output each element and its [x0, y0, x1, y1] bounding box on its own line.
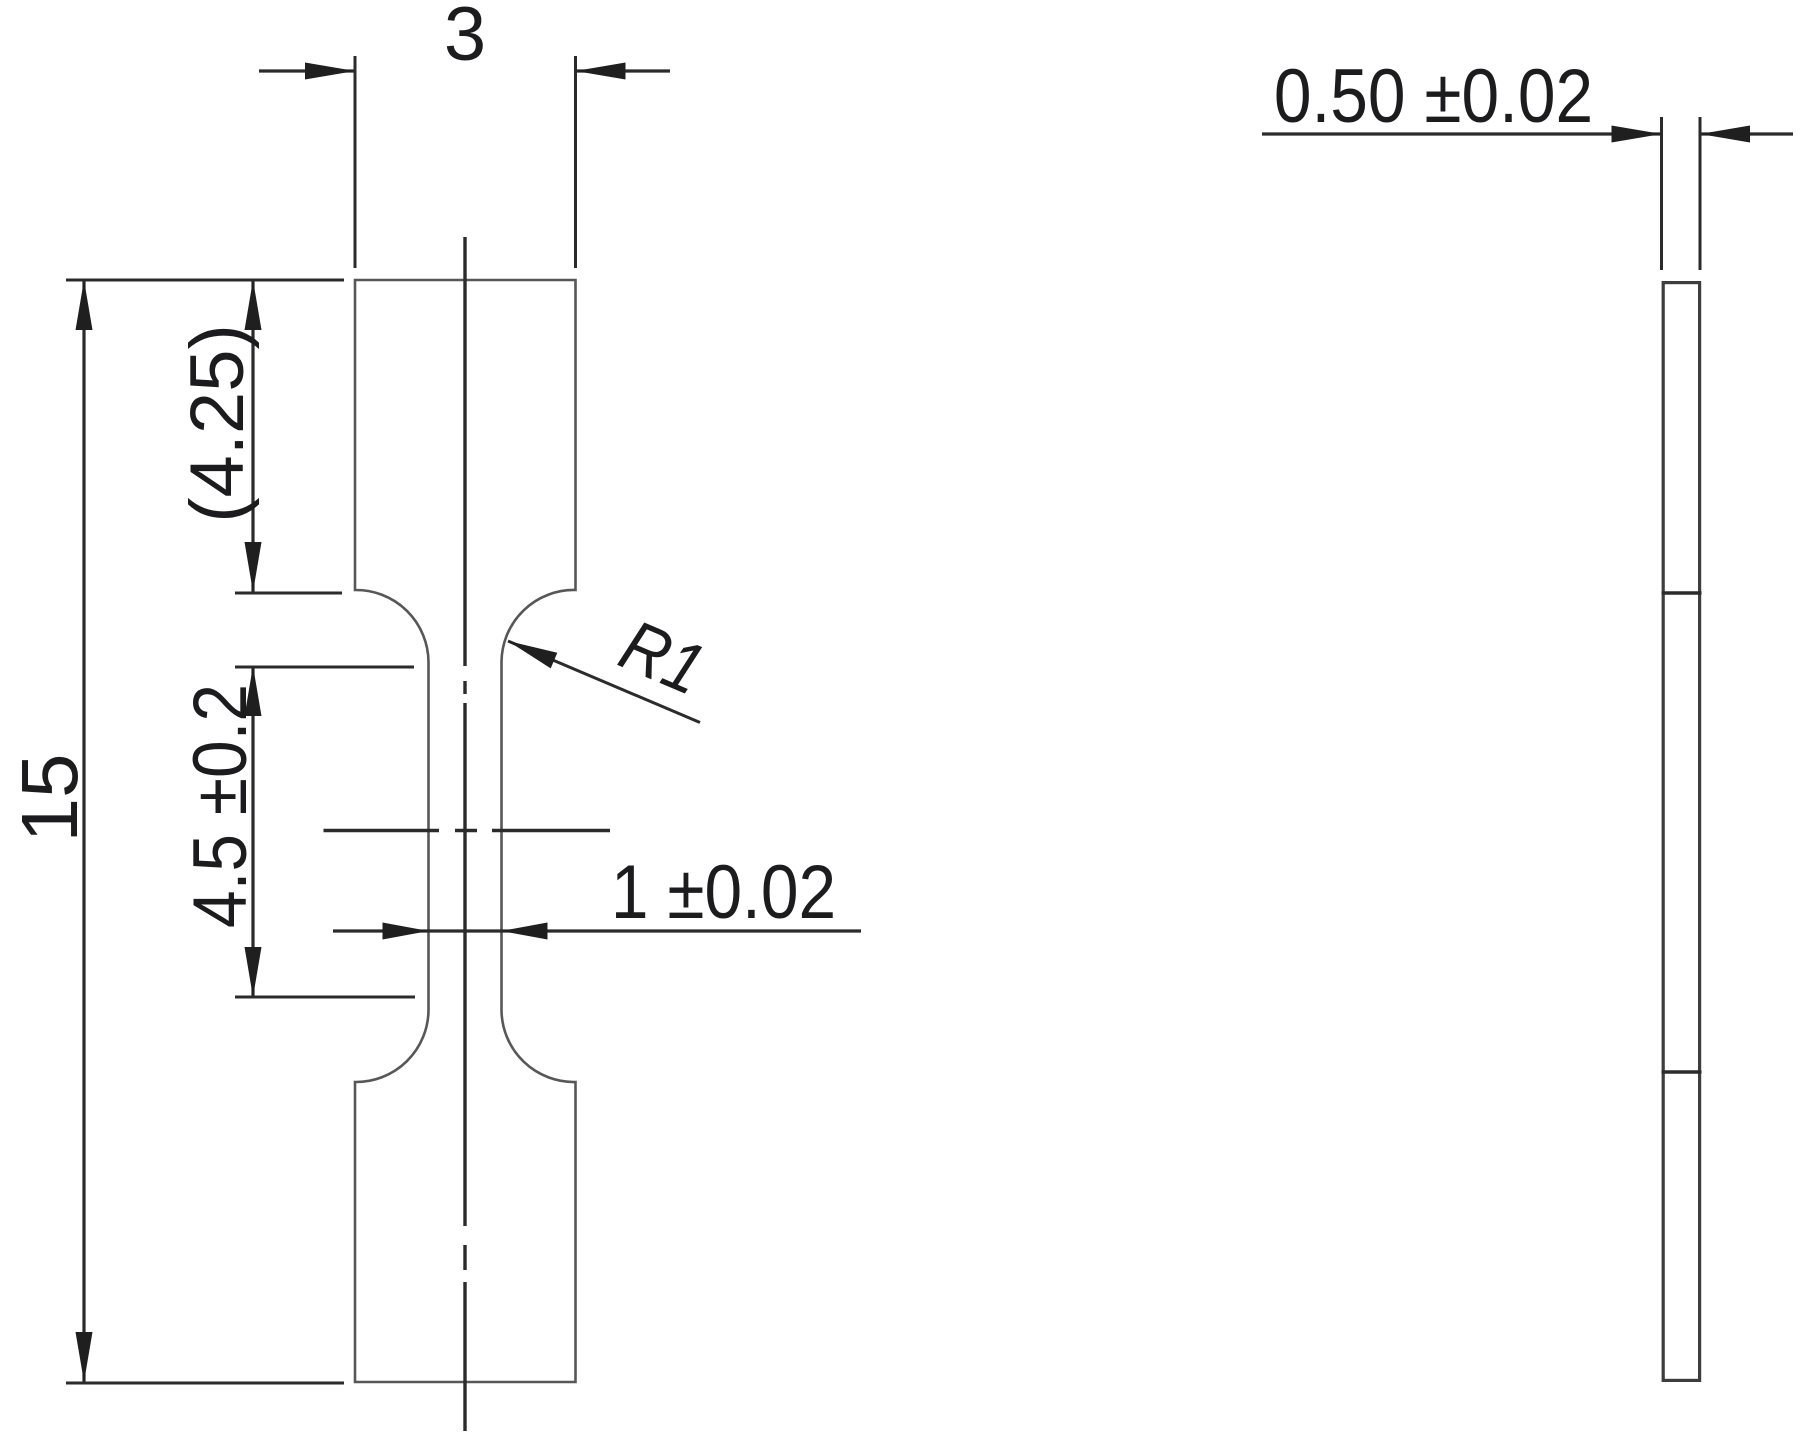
svg-text:4.5 ±0.2: 4.5 ±0.2 [178, 684, 263, 928]
dimension 3: dimension line and arrows [259, 69, 355, 72]
dimension 0.50 ±0.02: extension lines [1660, 117, 1663, 270]
dimension 0.50 ±0.02: dimension line and arrows [1262, 132, 1662, 135]
side view division line upper [1662, 591, 1702, 594]
dimension 15: dimension line and arrows [82, 280, 85, 1382]
dimension 3: extension lines [354, 56, 357, 268]
side view division line lower [1662, 1070, 1702, 1073]
svg-text:1 ±0.02: 1 ±0.02 [611, 850, 836, 935]
side view strip outline [1663, 283, 1699, 1381]
dimension 1 ±0.02: dimension line and arrows [333, 929, 861, 932]
dimension (4.25): extension line [235, 592, 342, 595]
dimension (4.25): dimension line and arrows [251, 280, 254, 592]
leader R1: line and arrow [508, 641, 700, 723]
svg-text:15: 15 [5, 754, 94, 843]
vertical center line [463, 237, 466, 666]
specimen front view outline [355, 280, 576, 1382]
dimension 4.5 ±0.2: dimension line and arrows [251, 666, 254, 997]
dimension 15: extension lines [66, 279, 344, 282]
dimension 4.5 ±0.2: extension lines [235, 666, 414, 669]
svg-text:R1: R1 [609, 605, 716, 711]
svg-text:0.50 ±0.02: 0.50 ±0.02 [1274, 54, 1593, 139]
svg-text:3: 3 [444, 0, 486, 77]
svg-text:(4.25): (4.25) [175, 324, 260, 523]
horizontal center mark [324, 829, 440, 832]
